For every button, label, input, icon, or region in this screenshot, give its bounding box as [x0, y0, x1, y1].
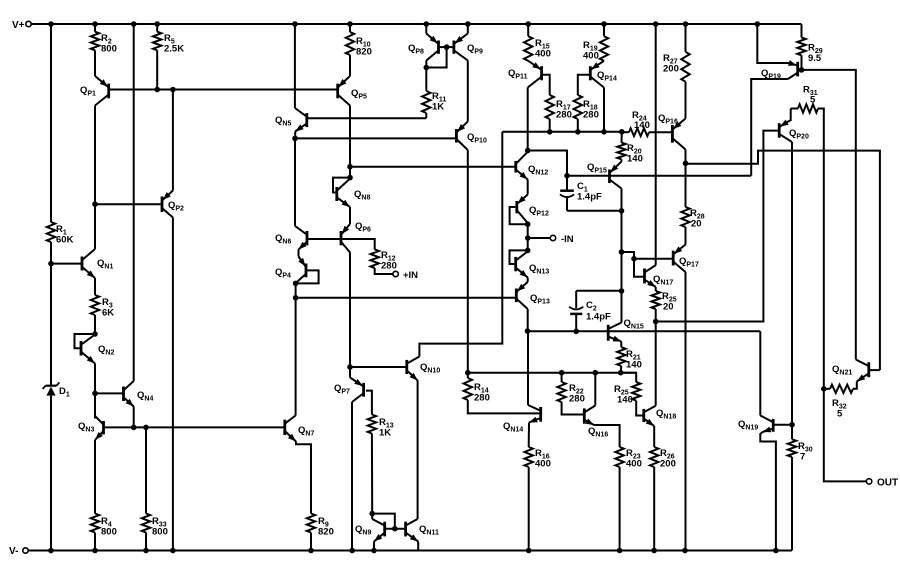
V- terminal: [9, 546, 28, 557]
svg-text:1K: 1K: [432, 102, 444, 113]
transistor QN21: [832, 360, 869, 382]
node QN17 loop junction: [619, 249, 625, 255]
node V+ rail junction: [347, 21, 353, 27]
svg-text:800: 800: [101, 527, 117, 538]
node V+ rail junction: [653, 21, 659, 27]
node V- rail junction: [682, 548, 688, 554]
node R33 top junction: [143, 425, 149, 431]
transistor QP2: [162, 191, 184, 218]
wire QN12 base line: [350, 166, 516, 168]
resistor R25b: [614, 382, 640, 405]
wire QP9 emitter lead: [467, 24, 469, 34]
node QN4 emitter junction: [131, 425, 137, 431]
resistor R17: [546, 95, 572, 121]
transistor QP15: [587, 162, 622, 189]
transistor QP5: [338, 76, 367, 106]
wire R26 to rail: [653, 467, 655, 551]
node QP12 collector junction: [525, 221, 531, 227]
resistor R10: [346, 32, 372, 58]
resistor R1: [47, 222, 74, 246]
wire R2 lead: [94, 24, 96, 32]
node -IN junction: [525, 235, 531, 241]
wire QP7 base to R13: [366, 391, 372, 415]
transistor QN2: [81, 335, 114, 364]
node QN12 base line junction: [347, 164, 353, 170]
wire R16 to rail: [528, 467, 530, 551]
transistor QN4: [124, 381, 154, 407]
node QP7 emitter junction: [347, 364, 353, 370]
wire R25b top: [621, 373, 637, 382]
capacitor C1: [560, 176, 602, 211]
wire QN9 base loop: [372, 514, 395, 529]
wire QN6 emitter to QP4: [298, 250, 300, 257]
node QP2 emitter junction: [170, 87, 176, 93]
transistor QP17: [673, 245, 699, 273]
node R14 top junction: [465, 370, 471, 376]
wire R1 column: [50, 24, 52, 264]
wire R27 lead: [685, 24, 687, 52]
transistor QP4: [275, 257, 306, 284]
wire R5 lead: [156, 24, 158, 32]
node V+ rail junction: [424, 21, 430, 27]
transistor QN19: [738, 416, 773, 433]
wire x621 to C2 node: [621, 252, 623, 291]
svg-text:60K: 60K: [56, 235, 74, 246]
wire R9 to rail: [310, 533, 312, 551]
wire R25a to node: [655, 309, 657, 322]
svg-text:20: 20: [663, 302, 674, 313]
wire QN5 collector column: [294, 24, 296, 108]
wire -IN to QN13: [527, 238, 529, 250]
svg-text:-IN: -IN: [561, 234, 574, 245]
wire QP19 collector path: [751, 79, 788, 176]
wire QP8 QP9 base line: [439, 46, 454, 48]
svg-text:V+: V+: [12, 20, 25, 31]
node QP14 collector junction: [601, 129, 607, 135]
svg-text:2.5K: 2.5K: [164, 44, 184, 55]
wire QP13 base line: [296, 297, 517, 299]
wire V+ rail: [31, 23, 801, 25]
resistor R29: [797, 38, 822, 65]
resistor R31: [798, 85, 818, 113]
node QN8 collector junction: [347, 175, 353, 181]
resistor R25a: [652, 291, 677, 313]
transistor QN12: [516, 152, 549, 180]
wire R10 to QP5: [349, 55, 351, 76]
wire QN10 base line: [350, 366, 407, 368]
wire QN19 base: [773, 424, 792, 426]
node V+ rail junction: [292, 21, 298, 27]
wire QN10 collector path: [419, 132, 502, 357]
wire QN3 base line: [104, 426, 285, 428]
wire V- rail: [28, 550, 792, 552]
wire QP12 to -IN node: [527, 224, 529, 238]
wire QN4 emitter: [133, 407, 135, 428]
wire QN5 emitter: [294, 132, 296, 139]
wire R24 leads: [622, 131, 671, 133]
wire QP17 base line: [634, 258, 673, 260]
wire QP14 collector: [603, 88, 605, 132]
wire QN15 base line: [528, 330, 761, 332]
svg-text:280: 280: [556, 110, 572, 121]
wire C2 top line: [576, 290, 621, 292]
node QP15 base junction: [564, 173, 570, 179]
wire QP17 collector column: [685, 272, 687, 551]
node R20 top junction: [619, 129, 625, 135]
transistor QP11: [508, 61, 542, 88]
wire QN17 collector column: [655, 24, 657, 265]
wire R13 to QN9 node: [371, 434, 373, 514]
node V- rail junction: [773, 548, 779, 554]
wire QN21 base link: [869, 369, 880, 371]
wire QP2 emitter column: [172, 90, 174, 191]
transistor QP13: [516, 282, 550, 309]
resistor R28: [681, 207, 704, 230]
resistor R22: [557, 382, 584, 405]
svg-text:20: 20: [691, 219, 702, 230]
wire QN7 emitter path: [296, 442, 311, 514]
node V- rail junction: [92, 548, 98, 554]
wire QN1 emitter to R3: [94, 278, 96, 295]
node QN13 collector junction: [525, 248, 531, 254]
wire QN11 emitter: [417, 542, 419, 551]
wire QN6 collector column: [294, 138, 296, 226]
wire QN5 base line: [307, 117, 427, 119]
wire QP1 base line: [109, 89, 338, 91]
node QP2 base junction: [92, 201, 98, 207]
transistor QP20: [779, 120, 809, 142]
node V- rail junction: [651, 548, 657, 554]
wire R20 lead: [621, 132, 623, 143]
node QN4 base junction: [92, 391, 98, 397]
transistor QP16: [658, 113, 686, 150]
resistor R3: [91, 295, 114, 319]
transistor QP1: [80, 76, 109, 106]
transistor QN9: [355, 519, 385, 542]
svg-text:800: 800: [101, 44, 117, 55]
wire QN13 base loop: [510, 250, 528, 264]
svg-text:OUT: OUT: [877, 478, 898, 489]
+IN terminal: [393, 270, 418, 281]
wire R4 to rail: [94, 533, 96, 551]
resistor R33: [142, 514, 168, 538]
node R32 OUT junction: [821, 386, 827, 392]
node V- rail junction: [308, 548, 314, 554]
wire R19 lead: [603, 24, 605, 36]
wire R25b to QN18 base: [636, 401, 644, 416]
wire QN4 collector column: [133, 24, 135, 381]
svg-text:1K: 1K: [379, 428, 391, 439]
wire QP10 collector column: [467, 150, 469, 373]
wire R3 to QN2: [94, 315, 96, 334]
wire QN1 base: [51, 263, 82, 265]
wire QN21 emitter to R32: [853, 382, 857, 389]
wire QN14 collector column: [527, 331, 529, 405]
wire R29 to QP19 base: [801, 55, 803, 70]
wire R11 to QN5 base: [425, 113, 427, 118]
node V- rail junction: [48, 548, 54, 554]
svg-text:820: 820: [356, 47, 372, 58]
transistor QP7: [334, 378, 364, 403]
wire QN17 base link: [634, 259, 643, 277]
wire R18 to node: [577, 119, 579, 132]
wire C1 bottom line: [567, 210, 622, 212]
node QN2 collector junction: [92, 331, 98, 337]
resistor R20: [617, 143, 643, 165]
node QP13 base junction: [293, 295, 299, 301]
wire OUT line: [824, 389, 867, 482]
resistor R11: [422, 91, 446, 113]
node R21 bottom junction: [618, 370, 624, 376]
resistor R26: [650, 447, 676, 470]
wire R15 lead: [527, 24, 529, 36]
node V+ rail junction: [154, 21, 160, 27]
wire QN15 emitter to R21: [620, 342, 622, 348]
wire QN12 collector loop: [528, 151, 567, 176]
transistor QP14: [590, 61, 617, 88]
wire mirror node line: [502, 131, 622, 133]
wire QP20 collector column: [791, 142, 793, 425]
node V+ rail junction: [131, 21, 137, 27]
node QN12 collector junction: [525, 148, 531, 154]
resistor R19: [583, 36, 608, 61]
node R17 bottom junction: [547, 129, 553, 135]
wire QN19 emitter path: [760, 432, 776, 551]
svg-text:140: 140: [617, 395, 633, 406]
wire QP8 emitter: [425, 24, 427, 34]
wire QN6 QP6 base line: [307, 238, 375, 240]
wire D1 column: [50, 264, 52, 551]
svg-text:280: 280: [583, 110, 599, 121]
wire R27 to QP16: [685, 82, 687, 119]
wire QN13 emitter to QP13: [527, 278, 529, 283]
node R5 base junction: [154, 87, 160, 93]
node QN16 collector junction: [593, 370, 599, 376]
svg-text:200: 200: [663, 64, 679, 75]
wire R21 to line: [620, 366, 623, 373]
resistor R24: [629, 110, 650, 136]
wire QP14 base to R18: [578, 75, 589, 95]
wire R5 to base line: [156, 50, 158, 89]
node QP8 base junction: [444, 44, 450, 50]
resistor R14: [464, 378, 490, 404]
capacitor C2: [569, 291, 611, 332]
node V- rail junction: [526, 548, 532, 554]
wire QN8 base loop: [333, 178, 350, 193]
svg-text:280: 280: [474, 393, 490, 404]
wire QP20 base line: [656, 131, 778, 322]
svg-text:7: 7: [800, 452, 805, 463]
wire x655 to QN18: [655, 322, 657, 406]
wire R31 left lead: [791, 109, 798, 122]
transistor QN13: [516, 251, 550, 277]
wire R10 lead: [349, 24, 351, 32]
transistor QN10: [407, 357, 441, 381]
transistor QN15: [608, 318, 644, 342]
node R25a bottom junction: [653, 319, 659, 325]
svg-text:400: 400: [535, 459, 551, 470]
wire QP4 to QP13 base node: [295, 283, 297, 297]
wire R28 lead: [685, 163, 687, 207]
svg-text:800: 800: [152, 527, 168, 538]
wire R20 to QP15: [621, 159, 623, 161]
svg-text:6K: 6K: [102, 308, 114, 319]
transistor QN7: [285, 416, 315, 442]
node R18 bottom junction: [575, 129, 581, 135]
node R22 top junction: [559, 370, 565, 376]
transistor QP9: [454, 34, 483, 61]
svg-text:200: 200: [660, 459, 676, 470]
wire QP6 base to R12: [343, 239, 375, 250]
resistor R30: [788, 439, 813, 462]
node V+ rail junction: [525, 21, 531, 27]
wire QN17 emitter to R25a: [655, 287, 657, 291]
wire QP6 collector column: [349, 253, 351, 368]
OUT terminal: [866, 478, 898, 489]
-IN terminal: [550, 234, 574, 245]
wire QN14 emitter to R16: [528, 423, 530, 448]
wire QP8 diode loop: [426, 47, 446, 67]
svg-text:+IN: +IN: [403, 270, 418, 281]
wire QN9 to QN11 base line: [385, 528, 406, 530]
wire C2 node to QN15: [621, 291, 623, 323]
transistor QP19: [761, 60, 798, 80]
node QN5 emitter junction: [292, 136, 298, 142]
wire QN10 emitter column: [417, 381, 419, 520]
transistor QN14: [503, 405, 541, 434]
node QP17 base junction: [631, 256, 637, 262]
node C2 bottom junction: [573, 329, 579, 335]
node V+ rail junction: [601, 21, 607, 27]
node QP15 collector junction: [619, 208, 625, 214]
wire QN21 base feed line: [686, 151, 880, 371]
wire QN19 collector column: [759, 331, 761, 415]
node QP13 collector junction: [525, 328, 531, 334]
wire QP10 base line: [295, 137, 456, 139]
wire QN21 collector line: [802, 70, 856, 360]
wire QN2 to QN3: [94, 393, 96, 418]
wire QN16 emitter path: [594, 425, 620, 447]
wire QN7 collector column: [295, 298, 297, 416]
wire QN12 emitter to QP12: [527, 180, 529, 195]
wire output mirror line: [468, 372, 636, 374]
wire R22 leads: [562, 373, 585, 415]
svg-text:280: 280: [569, 394, 585, 405]
svg-text:140: 140: [626, 360, 642, 371]
wire QP19 base link: [798, 69, 802, 71]
wire QP16 collector: [685, 150, 687, 164]
svg-text:1.4pF: 1.4pF: [586, 312, 611, 323]
transistor QN8: [337, 179, 371, 207]
wire R30 leads: [791, 425, 793, 551]
wire R29 from rail: [801, 24, 803, 38]
resistor R23: [615, 447, 641, 470]
wire QN3 emitter to R4: [94, 440, 96, 514]
resistor R16: [525, 447, 551, 470]
node QP19 base junction: [799, 67, 805, 73]
wire R14 leads: [468, 373, 541, 414]
wire QP19 emitter path: [757, 24, 788, 63]
node V+ rail junction: [92, 21, 98, 27]
node V+ rail junction: [755, 21, 761, 27]
wire R33 leads: [145, 427, 147, 550]
wire QP7 collector column: [351, 402, 353, 551]
node R28 top junction: [683, 161, 689, 167]
transistor QN6: [275, 226, 307, 250]
wire R31 right lead: [818, 109, 824, 389]
wire QN17 QP17 base link: [622, 252, 635, 259]
svg-text:400: 400: [535, 49, 551, 60]
resistor R18: [574, 95, 599, 121]
wire R2 to QP1 emitter: [94, 50, 96, 76]
svg-text:9.5: 9.5: [808, 53, 822, 64]
resistor R13: [368, 415, 394, 439]
svg-text:5: 5: [837, 409, 843, 420]
node V+ rail junction: [683, 21, 689, 27]
svg-text:5: 5: [810, 95, 816, 106]
svg-text:280: 280: [381, 261, 397, 272]
wire QP8 collector: [425, 61, 427, 68]
wire QP7 emitter: [349, 367, 351, 378]
zener D1: [43, 382, 70, 398]
wire QP11 base to R17: [543, 75, 550, 95]
resistor R12: [371, 250, 397, 272]
node V- rail junction: [143, 548, 149, 554]
svg-text:400: 400: [583, 51, 599, 62]
wire R28 to QP17: [685, 227, 687, 245]
node QP4 collector junction: [293, 281, 299, 287]
resistor R4: [91, 514, 117, 538]
wire R17 to node: [549, 119, 551, 132]
svg-text:V-: V-: [9, 546, 18, 557]
wire QP2 base line: [95, 203, 161, 205]
svg-text:400: 400: [626, 459, 642, 470]
transistor QN17: [645, 265, 674, 287]
wire QP4 base loop: [296, 270, 319, 283]
resistor R9: [307, 514, 334, 538]
wire QP13 collector: [527, 309, 529, 331]
node QN9 QN11 base junction: [392, 526, 398, 532]
node V- rail junction: [170, 548, 176, 554]
wire QP15 base line: [567, 175, 751, 177]
transistor QN18: [644, 406, 677, 426]
svg-text:140: 140: [634, 120, 650, 131]
transistor QN1: [82, 249, 113, 278]
resistor R32: [830, 385, 853, 420]
wire QP9 collector column: [467, 61, 469, 122]
transistor QP10: [456, 122, 487, 151]
wire QP11 collector column: [527, 88, 529, 151]
wire QN8 emitter to QP6: [349, 207, 351, 224]
node R11 top junction: [424, 65, 430, 71]
wire QN18 emitter to R26: [653, 426, 655, 447]
svg-text:140: 140: [627, 154, 643, 165]
node V+ rail junction: [48, 21, 54, 27]
svg-text:1.4pF: 1.4pF: [577, 192, 602, 203]
node V- rail junction: [617, 548, 623, 554]
transistor QP6: [341, 221, 371, 253]
svg-text:820: 820: [318, 527, 334, 538]
wire QN2 emitter column: [94, 364, 96, 394]
wire QP12 base loop: [510, 207, 528, 224]
resistor R5: [153, 32, 184, 55]
wire QP1 collector column: [94, 106, 96, 250]
node QN19 base junction: [789, 422, 795, 428]
wire QN2 base loop: [75, 334, 96, 348]
wire QN16 collector: [594, 373, 596, 406]
wire -IN lead: [528, 237, 551, 239]
resistor R27: [663, 52, 690, 82]
